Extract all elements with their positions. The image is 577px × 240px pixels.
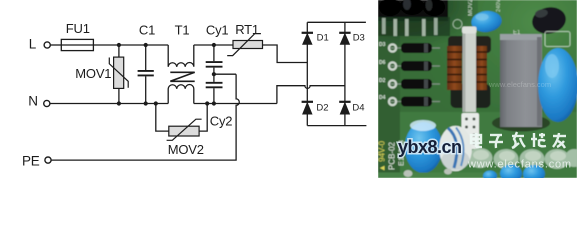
svg-text:T1: T1 [175,22,190,37]
label D2 [316,102,328,113]
bridge top rail [307,21,366,23]
solder pad row [468,148,577,169]
svg-text:D3: D3 [353,32,365,43]
label N [28,94,38,109]
screws [404,169,453,178]
node L-Cy1 [212,43,216,47]
terminal N [44,100,50,106]
transformer T1 top winding [168,45,194,67]
diode D3 [339,33,350,44]
svg-text:D3: D3 [379,42,386,48]
terminal L [44,42,50,48]
svg-text:www.elecfans.com: www.elecfans.com [488,80,551,89]
watermark hanzi [471,132,566,148]
bottom white capacitor [439,126,472,172]
node N-MOV1 [117,101,121,105]
svg-text:D4: D4 [352,102,364,113]
wire N after choke [194,103,277,105]
label RT1 [235,22,259,37]
label T1 [175,22,190,37]
wire L rail to choke [119,44,168,46]
label MOV1 [75,66,111,81]
svg-text:PE: PE [22,154,40,169]
svg-text:240V: 240V [496,0,502,12]
terminal PE [45,157,51,163]
wire N step up to bridge [277,86,345,104]
wire RT1 to bridge [263,45,308,63]
PCB board [378,0,577,178]
svg-text:D1: D1 [317,32,329,43]
big blue capacitor right [538,48,577,122]
svg-text:D2: D2 [379,78,386,84]
board bottom edge strip [378,173,500,179]
node N-MOV2 right [205,101,209,105]
label D3 [353,32,365,43]
diode row (photo) [379,42,440,107]
wire Cy tap to PE drop [214,73,236,75]
label Cy1 [206,22,229,37]
svg-text:L: L [29,37,37,52]
transformer T1 core [170,72,194,81]
svg-text:C1: C1 [139,22,155,37]
diode D4 [339,102,350,114]
heatsink block [492,34,550,132]
bridge left branch [306,22,308,125]
label D1 [317,32,329,43]
svg-text:FU1: FU1 [66,21,90,36]
wire choke to Cy1 node and RT1 [194,44,233,46]
svg-text:Cy1: Cy1 [206,22,229,37]
transformer T1 bottom winding [168,85,194,104]
svg-text:▲ 94V-0: ▲ 94V-0 [378,140,387,172]
silkscreen text MOV [468,0,521,36]
node N-Cy2 [212,101,216,105]
wire PE rail with hop [51,74,239,160]
svg-text:RT1: RT1 [235,22,259,37]
svg-text:Cy2: Cy2 [210,113,233,128]
svg-text:D2: D2 [316,102,328,113]
svg-text:PCB-02: PCB-02 [388,141,397,170]
capacitor C1 [138,45,154,104]
label L [29,37,37,52]
label PE [22,154,40,169]
diode D2 [302,102,313,114]
node Cy tap [212,72,216,76]
wire through fuse to MOV1 node [61,44,119,46]
svg-text:MOV2: MOV2 [468,0,474,16]
label MOV2 [168,142,204,157]
svg-text:D6: D6 [379,60,386,66]
silkscreen box top right [545,32,570,47]
terminal block (photo) [378,0,450,36]
varistor MOV1 [109,45,128,104]
label Cy2 [210,113,233,128]
node L-C1 [144,43,148,47]
node N-MOV2 left [154,101,158,105]
svg-text:MOV1: MOV1 [75,66,111,81]
label C1 [139,22,155,37]
watermark elecfans bottom [467,159,572,171]
black capacitor top [530,4,569,37]
node L-MOV1 [117,43,121,47]
wire N rail [50,103,168,105]
capacitor Cy2 [206,83,223,104]
watermark ybx8 [398,137,462,157]
bottom blue capacitor [405,120,443,173]
bridge bottom rail [307,125,366,127]
svg-text:D4: D4 [379,95,386,101]
svg-text:ybx8.cn: ybx8.cn [398,137,462,157]
thermistor RT1 [227,34,262,56]
node N-C1 [144,101,148,105]
silkscreen texts [378,122,466,172]
svg-text:www.elecfans.com: www.elecfans.com [467,159,572,171]
fuse FU1 [61,39,93,50]
svg-text:MOV2: MOV2 [168,142,204,157]
watermark elecfans on block [488,80,551,89]
varistor MOV2 [156,104,207,141]
blue capacitor top [470,9,502,33]
wire L to fuse [50,44,61,46]
label FU1 [66,21,90,36]
label D4 [352,102,364,113]
toroid inductor [447,20,491,113]
diode D1 [302,33,313,44]
svg-text:N: N [28,94,38,109]
small blue caps bottom [483,165,545,184]
white connector [462,113,480,149]
capacitor Cy1 [206,45,223,82]
bridge right branch [344,22,346,125]
